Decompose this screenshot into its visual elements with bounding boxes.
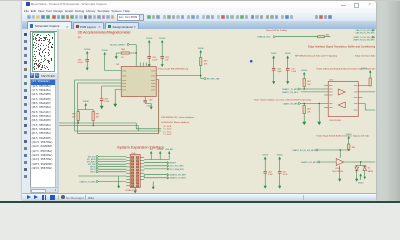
left panel — [29, 29, 57, 193]
schematic canvas — [59, 29, 376, 193]
svg-text:RESET: RESET — [170, 163, 177, 165]
vscroll — [55, 79, 60, 189]
svg-text:0 1 : 0x1D: 0 1 : 0x1D — [164, 129, 173, 131]
svg-text:3V3GD: 3V3GD — [263, 155, 270, 157]
svg-text:0.1uF: 0.1uF — [283, 174, 289, 176]
svg-text:USART_OE_MPU: USART_OE_MPU — [283, 103, 299, 106]
svg-text:USART1_TX_MPU: USART1_TX_MPU — [283, 88, 300, 91]
ground mid — [319, 104, 321, 119]
svg-text:3V3GD: 3V3GD — [277, 155, 284, 157]
svg-text:0.1uF: 0.1uF — [105, 102, 111, 104]
top hairline — [0, 0, 400, 1]
tab bar — [22, 21, 376, 30]
hscroll of list — [30, 187, 59, 193]
brown I2C wires — [158, 80, 160, 134]
svg-text:0.1uF: 0.1uF — [78, 63, 84, 65]
svg-text:USART2_TX_MPU: USART2_TX_MPU — [170, 177, 187, 180]
right backdrop shading — [376, 0, 400, 203]
svg-text:I2C1_SCL_MPU: I2C1_SCL_MPU — [170, 166, 185, 168]
buffer U11A 74LVC1G126 — [337, 159, 345, 166]
svg-text:1 0 : 0x1C: 1 0 : 0x1C — [164, 132, 173, 134]
long bottom wire and ground — [79, 175, 127, 177]
svg-text:BAT54: BAT54 — [368, 170, 373, 173]
svg-text:3V3GD: 3V3GD — [198, 48, 205, 50]
P L buttons + DEVICES header — [30, 73, 57, 79]
svg-text:Edge Interface Side: Edge Interface Side — [356, 55, 376, 58]
U10 pin stubs and names — [325, 85, 329, 87]
splitter between panel and schematic — [57, 29, 59, 193]
svg-text:4K7: 4K7 — [73, 117, 76, 119]
svg-text:R63: R63 — [96, 114, 99, 116]
svg-text:(c): (c) — [78, 36, 81, 39]
svg-text:0x1E/0x1D Slave address: 0x1E/0x1D Slave address — [162, 122, 190, 124]
ground below buffer — [339, 166, 341, 176]
ground below C83 — [101, 103, 103, 107]
svg-text:R61: R61 — [308, 81, 311, 83]
svg-text:Freescale FXOS8700CQ: Freescale FXOS8700CQ — [159, 68, 189, 71]
svg-text:USART_RX_NC_EN_MPU: USART_RX_NC_EN_MPU — [354, 39, 376, 42]
svg-text:3V3GD: 3V3GD — [158, 149, 165, 151]
svg-text:I2C1_SDA_MPU: I2C1_SDA_MPU — [170, 168, 185, 171]
toolbar — [22, 13, 376, 22]
svg-text:CAN_RX_NC_EN_MPU: CAN_RX_NC_EN_MPU — [356, 32, 376, 35]
svg-text:R62: R62 — [326, 35, 329, 37]
svg-text:0.1uF: 0.1uF — [153, 60, 159, 62]
wire ACCEL_RESET to R64 — [130, 44, 137, 46]
svg-text:3D Accelerometer/Magnetometer: 3D Accelerometer/Magnetometer — [78, 31, 132, 35]
svg-text:USART1_TX_MPU: USART1_TX_MPU — [80, 181, 97, 184]
svg-text:74LVC2G241: 74LVC2G241 — [330, 120, 343, 122]
svg-text:USART2_RX_MPU: USART2_RX_MPU — [170, 174, 187, 177]
svg-text:USART1_RX_MPU: USART1_RX_MPU — [282, 91, 299, 94]
svg-text:3V3GD: 3V3GD — [83, 101, 90, 103]
overview / world view — [30, 31, 59, 74]
menu bar — [22, 8, 376, 13]
svg-text:Status LED for TestBay: Status LED for TestBay — [267, 29, 288, 32]
IC left pin wires — [75, 79, 122, 81]
IC bottom pin / C84 — [145, 97, 147, 101]
status bar — [22, 193, 376, 202]
svg-text:3V3GD: 3V3GD — [160, 38, 167, 40]
dark teal bottom bar — [0, 201, 400, 204]
net labels right of CN1 — [145, 162, 168, 164]
svg-text:Treble Single Ended Buffered I: Treble Single Ended Buffered Interface S… — [317, 135, 371, 138]
U10 right wires — [359, 85, 371, 87]
svg-text:R64: R64 — [308, 109, 311, 111]
title bar — [22, 1, 376, 8]
svg-text:1 1 : 0x1F: 1 1 : 0x1F — [164, 135, 173, 137]
ground right of CN1 — [153, 182, 155, 186]
svg-text:3V3GD: 3V3GD — [346, 134, 353, 136]
mouse cursor dot — [250, 60, 253, 63]
svg-text:3V3GD: 3V3GD — [271, 53, 278, 55]
svg-text:LBS_A33: LBS_A33 — [166, 148, 174, 151]
svg-text:3V3GD: 3V3GD — [102, 50, 109, 52]
svg-text:0.1uF: 0.1uF — [292, 72, 298, 74]
D1 grounds and power — [356, 171, 358, 176]
svg-text:R62: R62 — [73, 114, 76, 116]
svg-text:3V3GD: 3V3GD — [362, 68, 369, 70]
resistor R62b — [318, 36, 325, 38]
svg-text:3V3GD: 3V3GD — [285, 53, 292, 55]
svg-text:3V3GD: 3V3GD — [358, 183, 364, 185]
svg-text:FXOS8700 I2C slave address: FXOS8700 I2C slave address — [162, 117, 195, 119]
svg-text:74LVC1G126: 74LVC1G126 — [333, 172, 344, 174]
svg-text:R65: R65 — [352, 147, 355, 149]
svg-text:USART_RX_NC_EN_MPU: USART_RX_NC_EN_MPU — [293, 149, 316, 152]
svg-text:ACCEL_RESET: ACCEL_RESET — [111, 44, 127, 47]
U10 inner pin names — [329, 85, 333, 88]
svg-text:3V3GD: 3V3GD — [85, 49, 92, 51]
active tab: Schematic Capture — [27, 21, 72, 30]
IC top pin stubs — [140, 63, 142, 67]
connector ground stem — [135, 188, 137, 190]
application window — [22, 1, 376, 200]
IC right pin wires — [157, 75, 202, 77]
svg-text:GPIO2: GPIO2 — [90, 172, 96, 174]
resistor R65 — [348, 144, 350, 150]
svg-text:Note: Output enables can activ: Note: Output enables can active LOW and … — [255, 99, 312, 102]
device list — [30, 79, 56, 189]
simulation control buttons — [27, 195, 31, 199]
svg-text:3V3GD: 3V3GD — [147, 38, 154, 40]
svg-text:STATUS_LED: STATUS_LED — [258, 36, 272, 39]
diode pair D1 BAT54S — [360, 162, 362, 166]
svg-text:INT1/INT_TAP: INT1/INT_TAP — [207, 78, 221, 81]
I2C bus wires to connector area — [78, 121, 80, 124]
svg-text:4K7: 4K7 — [96, 117, 99, 119]
svg-text:USART1_RX_MPU: USART1_RX_MPU — [301, 161, 318, 164]
svg-text:Edge Interface Signal Translat: Edge Interface Signal Translation, Buffe… — [309, 45, 376, 49]
svg-text:0 0 : 0x1E: 0 0 : 0x1E — [164, 126, 173, 128]
net label INT1/INT_TAP — [200, 76, 202, 79]
svg-text:3V3GD: 3V3GD — [302, 70, 309, 72]
ground (IC pin) — [115, 101, 117, 105]
svg-text:3V3: 3V3 — [150, 149, 153, 151]
svg-text:MPU/Motherboard Side (LSTT Sig: MPU/Motherboard Side (LSTT Signals) — [296, 55, 338, 58]
left mode toolbar — [22, 29, 30, 193]
